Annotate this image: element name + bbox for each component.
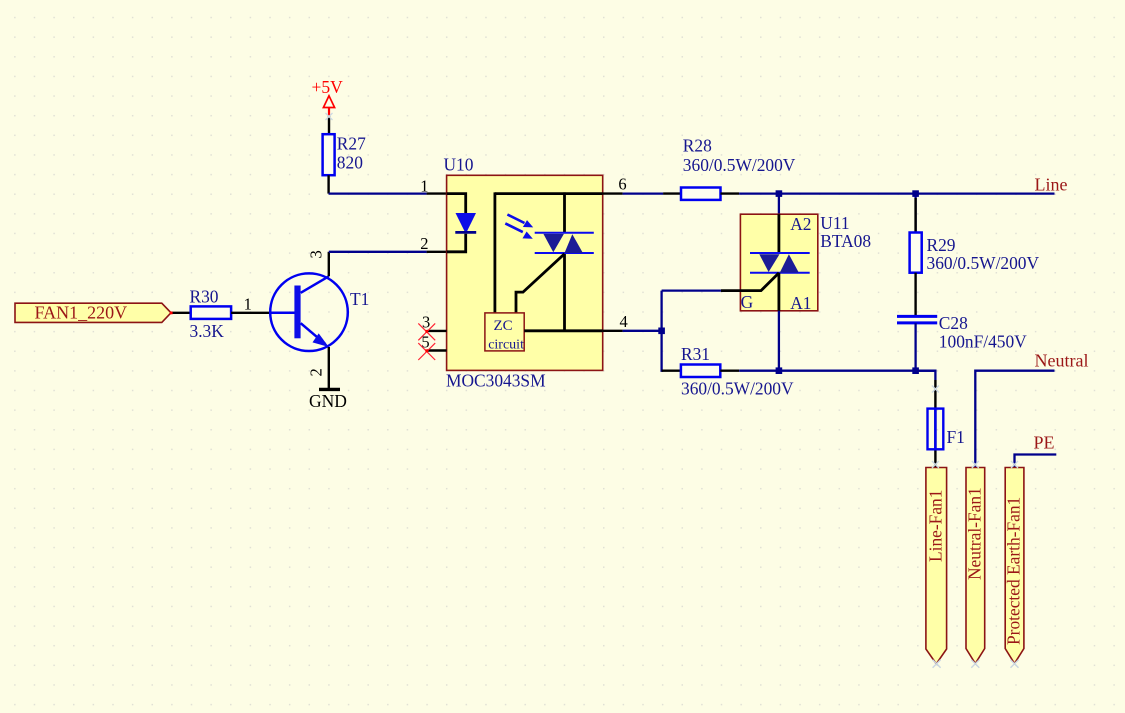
svg-text:Neutral: Neutral [1035, 350, 1089, 370]
svg-text:4: 4 [620, 312, 628, 331]
resistor R31 [662, 344, 794, 399]
svg-text:A1: A1 [790, 293, 811, 313]
U10 pin6 lead [603, 175, 627, 194]
svg-text:T1: T1 [350, 289, 369, 309]
svg-text:Line: Line [1035, 174, 1068, 194]
svg-text:2: 2 [307, 368, 326, 376]
junction (pin4 / gate) [658, 328, 665, 335]
svg-text:F1: F1 [947, 427, 965, 447]
wire Neutral [975, 371, 1054, 468]
svg-text:360/0.5W/200V: 360/0.5W/200V [683, 155, 796, 175]
svg-text:PE: PE [1034, 433, 1055, 453]
wire R28 to Line [721, 192, 1055, 194]
pin number 2 (U10) [420, 234, 428, 253]
U10 LED anode lead [447, 194, 466, 213]
U11 triac symbol [750, 253, 810, 273]
svg-text:circuit: circuit [488, 338, 524, 353]
pin number 2 (T1 emitter) [307, 368, 326, 376]
U11 designator [820, 213, 871, 251]
svg-text:ZC: ZC [494, 318, 513, 334]
junction (C28 / rail) [912, 367, 919, 374]
U10 LED [455, 213, 476, 234]
junction (U11 A2 / Line) [776, 190, 783, 197]
svg-text:360/0.5W/200V: 360/0.5W/200V [681, 378, 794, 398]
svg-text:360/0.5W/200V: 360/0.5W/200V [927, 253, 1040, 273]
svg-text:Line-Fan1: Line-Fan1 [926, 490, 946, 562]
svg-text:R27: R27 [337, 133, 366, 153]
ground GND [309, 389, 347, 410]
wire FAN1 to R30 [170, 312, 191, 315]
U10 pin4 lead [524, 329, 622, 332]
net label PE [1034, 433, 1055, 453]
resistor R29 [910, 194, 1040, 274]
svg-text:U11: U11 [820, 213, 849, 233]
svg-text:R30: R30 [190, 286, 219, 306]
svg-text:+5V: +5V [312, 77, 344, 97]
port Protected Earth-Fan1 [1004, 468, 1024, 664]
capacitor C28 [897, 313, 1027, 352]
wire U11 gate to node [662, 289, 721, 291]
U10 light arrows [505, 215, 533, 239]
T1 emitter pin [328, 347, 330, 389]
power +5V label [312, 77, 344, 97]
wire T1 collector to U10 pin2 [329, 251, 447, 253]
net label Line [1035, 174, 1068, 194]
svg-text:820: 820 [337, 152, 363, 172]
svg-text:100nF/450V: 100nF/450V [939, 331, 1027, 351]
svg-text:G: G [741, 292, 754, 312]
U10 pin5 stub [421, 333, 446, 352]
wire C28 to rail [914, 323, 916, 371]
port tip markers [933, 660, 1019, 668]
svg-text:3: 3 [307, 250, 326, 258]
svg-text:FAN1_220V: FAN1_220V [35, 302, 128, 322]
triac U11 body [740, 214, 817, 313]
wire rail corner to fuse [916, 371, 936, 468]
wire U11 A1 down [778, 311, 780, 371]
U10 pin3 stub [422, 312, 447, 331]
U10 inner top rail [495, 192, 603, 330]
wire gate node vertical [662, 291, 664, 371]
svg-text:GND: GND [309, 391, 347, 411]
svg-text:U10: U10 [444, 154, 474, 174]
wire node to U10 pin1 [329, 192, 447, 194]
svg-text:C28: C28 [939, 313, 968, 333]
port Line-Fan1 [926, 468, 947, 664]
wire PE [1015, 455, 1057, 468]
resistor R27 [323, 133, 366, 175]
svg-text:R28: R28 [683, 135, 712, 155]
svg-text:2: 2 [420, 234, 428, 253]
wire R29 to C28 [914, 273, 916, 317]
power +5V symbol [323, 96, 334, 116]
junction (A1 / rail) [776, 367, 783, 374]
pin number 1 (T1 base) [244, 294, 252, 313]
svg-text:MOC3043SM: MOC3043SM [446, 371, 546, 391]
svg-text:R31: R31 [681, 344, 710, 364]
net end markers [326, 113, 1019, 468]
no-ERC cross pin3 [418, 323, 435, 340]
net label Neutral [1035, 350, 1089, 370]
svg-text:Neutral-Fan1: Neutral-Fan1 [965, 487, 985, 580]
wire U10 pin6 to R28 [623, 192, 681, 194]
U11 A1 lead [778, 273, 781, 311]
wire +5V to R27 [328, 116, 330, 134]
junction (R29 / Line) [912, 190, 919, 197]
svg-text:BTA08: BTA08 [820, 231, 871, 251]
wire U10 pin4 to gate node [623, 330, 662, 332]
svg-text:A2: A2 [790, 214, 811, 234]
pin number 3 (T1 collector) [307, 250, 326, 258]
svg-text:Protected Earth-Fan1: Protected Earth-Fan1 [1004, 497, 1024, 645]
wire Line to U11 A2 [778, 194, 780, 215]
fuse F1 [928, 409, 965, 450]
svg-text:3.3K: 3.3K [190, 321, 225, 341]
T1 collector pin [328, 252, 330, 276]
U10 ZC circuit block [485, 313, 524, 353]
resistor R28 [681, 135, 796, 200]
U10 photo-triac [535, 233, 594, 253]
no-ERC cross pin5 [418, 343, 435, 360]
pin number 4 (U10) [620, 312, 628, 331]
port FAN1_220V [15, 302, 171, 322]
U11 gate lead [721, 273, 779, 291]
wire R31 to neutral rail [739, 370, 935, 372]
U10 LED cathode lead [447, 234, 466, 252]
pin number 1 (U10) [420, 176, 428, 195]
U10 gate lead to ZC [516, 254, 565, 313]
wire R27 to node [327, 175, 329, 193]
port Neutral-Fan1 [965, 468, 985, 664]
svg-text:1: 1 [420, 176, 428, 195]
optocoupler U10 body [444, 154, 603, 390]
svg-text:6: 6 [618, 175, 626, 194]
transistor T1 [270, 273, 369, 351]
svg-text:R29: R29 [927, 235, 956, 255]
wire R30 to T1 base [231, 312, 270, 314]
svg-text:1: 1 [244, 294, 252, 313]
U11 A2 lead [778, 214, 781, 253]
resistor R30 [190, 286, 232, 341]
svg-text:5: 5 [421, 333, 429, 352]
